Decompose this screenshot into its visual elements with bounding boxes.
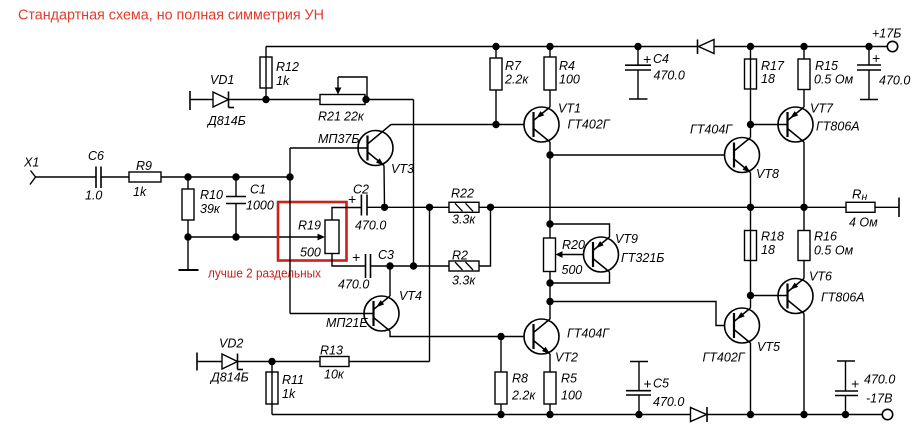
svg-text:R9: R9: [136, 159, 152, 173]
svg-text:ГТ321Б: ГТ321Б: [621, 251, 664, 265]
node C1 bottom: [232, 233, 239, 240]
svg-text:470.0: 470.0: [879, 74, 910, 88]
capacitor C1: [226, 177, 274, 237]
node R11 top: [268, 358, 275, 365]
wire riser R21 to C3 node: [413, 100, 415, 267]
svg-text:-17В: -17В: [866, 392, 892, 406]
svg-text:R19: R19: [298, 219, 321, 233]
wire VT9 emitter bracket: [550, 224, 610, 237]
svg-text:R22: R22: [451, 187, 474, 201]
wire R13 to riser: [349, 361, 430, 363]
svg-text:R7: R7: [505, 59, 522, 73]
node C4 top: [634, 43, 641, 50]
svg-text:470.0: 470.0: [654, 69, 685, 83]
svg-text:R18: R18: [761, 230, 784, 244]
wire to VT5 base: [550, 283, 734, 326]
svg-text:МП37Б: МП37Б: [318, 132, 360, 146]
svg-text:VT1: VT1: [558, 102, 581, 116]
svg-text:лучше 2 раздельных: лучше 2 раздельных: [208, 266, 321, 281]
node R20 top: [546, 220, 553, 227]
capacitor C5: [626, 362, 684, 415]
node C5 bottom: [635, 411, 642, 418]
svg-text:R10: R10: [200, 188, 223, 202]
svg-text:470.0: 470.0: [653, 395, 684, 409]
wire VT4 emitter to C3 node: [389, 266, 391, 296]
svg-text:ГТ402Г: ГТ402Г: [703, 351, 746, 365]
svg-text:3.3к: 3.3к: [452, 213, 476, 227]
terminal -17V: [882, 409, 892, 419]
diode top rail: [698, 40, 715, 55]
node C1 top: [232, 173, 239, 180]
wire top rail left: [266, 46, 698, 48]
node VT1 collector: [546, 151, 553, 158]
svg-text:1k: 1k: [133, 185, 147, 199]
node R17 top: [747, 43, 754, 50]
terminal output: [898, 198, 900, 218]
resistor R13: [320, 344, 349, 382]
node VT5 base takeoff: [546, 298, 553, 305]
wire R21 to riser: [365, 99, 414, 101]
svg-text:R13: R13: [320, 344, 343, 358]
resistor R15: [798, 47, 854, 108]
svg-text:ГТ806А: ГТ806А: [821, 291, 865, 305]
node input/base junction: [286, 173, 293, 180]
resistor R8: [495, 337, 536, 415]
svg-text:10к: 10к: [324, 368, 345, 382]
svg-text:C6: C6: [88, 149, 104, 163]
wire Rн to terminal: [875, 206, 899, 208]
svg-text:VT3: VT3: [391, 162, 414, 176]
svg-text:1k: 1k: [282, 387, 296, 401]
svg-text:R11: R11: [282, 373, 304, 387]
capacitor C2: [348, 183, 386, 233]
svg-text:0.5 Ом: 0.5 Ом: [814, 244, 854, 258]
potentiometer R21: [318, 77, 367, 124]
svg-text:C4: C4: [653, 52, 669, 66]
node R16 top / VT7 collector: [800, 204, 807, 211]
svg-text:3.3к: 3.3к: [452, 274, 476, 288]
svg-text:1.0: 1.0: [85, 189, 102, 203]
svg-text:R: R: [852, 187, 861, 202]
node R10 bottom: [184, 233, 191, 240]
svg-text:+: +: [352, 249, 360, 265]
potentiometer R20: [544, 224, 594, 283]
capacitor C6: [85, 149, 104, 203]
resistor R5: [544, 372, 582, 415]
wire bottom rail right: [707, 414, 882, 416]
node VT4 emitter: [386, 262, 393, 269]
svg-text:Стандартная схема, но полная с: Стандартная схема, но полная симметрия У…: [18, 7, 324, 24]
svg-text:МП21Е: МП21Е: [326, 316, 368, 330]
capacitor -17 rail: [835, 361, 895, 415]
node R4 top: [546, 43, 553, 50]
svg-text:4 Ом: 4 Ом: [849, 216, 878, 230]
potentiometer R19: [298, 208, 366, 267]
node R20 bottom: [546, 279, 553, 286]
wire VT4 collector to VT2 base: [390, 331, 534, 337]
node riser R13 top: [426, 204, 433, 211]
wire bottom bias node: [188, 236, 320, 238]
svg-text:+: +: [643, 51, 651, 67]
wire VT1 collector node: [550, 142, 734, 224]
svg-text:Д814Б: Д814Б: [206, 114, 246, 128]
svg-text:C3: C3: [378, 248, 394, 262]
resistor R2: [449, 249, 479, 288]
node R12 bottom: [262, 96, 269, 103]
transistor VT7: [751, 102, 860, 208]
svg-text:18: 18: [761, 72, 775, 86]
wire R2 to R22 junction: [479, 207, 491, 266]
svg-text:R5: R5: [561, 372, 577, 386]
svg-text:ГТ404Г: ГТ404Г: [690, 123, 733, 137]
transistor VT1: [524, 102, 611, 143]
zener VD1: [190, 73, 246, 128]
node R21 right: [362, 96, 369, 103]
svg-text:VD1: VD1: [210, 73, 234, 87]
svg-text:н: н: [862, 191, 868, 203]
svg-text:VT2: VT2: [555, 351, 578, 365]
wire VD2 node: [238, 361, 321, 363]
svg-text:ГТ404Г: ГТ404Г: [567, 327, 610, 341]
red highlight box: [278, 202, 347, 261]
node VT5 collector bottom: [747, 411, 754, 418]
wire X1 to C6: [36, 176, 97, 178]
transistor VT8: [690, 123, 779, 208]
node R7 top: [492, 43, 499, 50]
svg-text:R16: R16: [814, 230, 837, 244]
wire VT9 collector bracket: [550, 272, 610, 283]
ground: [179, 237, 199, 270]
node VT7 base / R17 bottom: [747, 121, 754, 128]
resistor R16: [798, 207, 854, 278]
svg-text:ГТ806А: ГТ806А: [816, 120, 860, 134]
resistor R9: [129, 159, 161, 199]
svg-text:VT9: VT9: [615, 232, 638, 246]
svg-text:+17Б: +17Б: [872, 27, 901, 41]
svg-text:C5: C5: [653, 377, 669, 391]
wire R9 to input node: [161, 176, 290, 178]
svg-text:VD2: VD2: [219, 337, 243, 351]
node VT1 base / R7: [492, 121, 499, 128]
title text: [18, 7, 324, 24]
node VT6 collector bottom: [800, 411, 807, 418]
svg-text:+: +: [643, 376, 651, 392]
svg-text:C1: C1: [250, 183, 266, 197]
wire C2 node: [367, 206, 449, 208]
node R5 bottom: [546, 411, 553, 418]
red note text: [208, 266, 321, 281]
wire riser R13 to C2 node: [429, 207, 431, 361]
node riser C3: [410, 262, 417, 269]
svg-text:0.5 Ом: 0.5 Ом: [814, 73, 854, 87]
svg-text:39к: 39к: [200, 202, 221, 216]
node R18 top: [747, 204, 754, 211]
svg-text:2.2к: 2.2к: [504, 73, 529, 87]
capacitor +17 rail: [857, 47, 910, 100]
node +17 cap: [865, 43, 872, 50]
resistor R7: [490, 47, 529, 125]
wire VD1 node: [229, 99, 321, 101]
svg-text:ГТ402Г: ГТ402Г: [568, 118, 611, 132]
svg-text:VT8: VT8: [756, 167, 779, 181]
resistor R12: [260, 47, 299, 100]
terminal +17V: [872, 27, 901, 52]
wire VT2 emitter to R5: [549, 354, 551, 372]
wire VT3 collector to VT1 base: [391, 124, 534, 126]
resistor R4: [544, 47, 580, 108]
transistor VT3: [290, 125, 414, 177]
wire top rail right: [714, 46, 888, 48]
svg-text:1k: 1k: [276, 74, 290, 88]
svg-text:Д814Б: Д814Б: [209, 371, 249, 385]
svg-text:+: +: [851, 376, 859, 392]
svg-text:2.2к: 2.2к: [511, 389, 536, 403]
resistor R22: [449, 187, 479, 227]
wire VT3 emitter to C2 node: [383, 166, 386, 208]
transistor VT9: [584, 232, 665, 272]
svg-text:R4: R4: [559, 59, 575, 73]
svg-text:R17: R17: [761, 59, 785, 73]
svg-text:470.0: 470.0: [864, 373, 895, 387]
svg-text:R21: R21: [318, 110, 341, 124]
node bottom cap: [842, 411, 849, 418]
svg-text:500: 500: [562, 263, 583, 277]
svg-text:X1: X1: [23, 156, 39, 170]
transistor VT2: [524, 319, 610, 365]
resistor Rн: [846, 187, 878, 230]
node R10 top: [184, 173, 191, 180]
svg-text:VT6: VT6: [809, 270, 832, 284]
node R8 top: [497, 333, 504, 340]
svg-text:VT4: VT4: [399, 289, 422, 303]
resistor R18: [745, 207, 784, 295]
node feedback junction: [487, 204, 494, 211]
wire C6 to R9: [101, 176, 129, 178]
svg-text:470.0: 470.0: [338, 278, 369, 292]
resistor R17: [745, 47, 785, 125]
potentiometer R19 wiper arrow: [318, 234, 326, 241]
svg-text:+: +: [872, 50, 880, 66]
diode bottom rail: [691, 407, 708, 422]
wire output rail: [479, 206, 846, 208]
wire base riser: [289, 148, 291, 314]
node VT3 emitter: [381, 204, 388, 211]
svg-text:R20: R20: [562, 238, 585, 252]
svg-text:VT5: VT5: [757, 340, 780, 354]
svg-text:500: 500: [300, 246, 321, 260]
wire bottom rail left: [272, 414, 691, 416]
resistor R10: [182, 177, 223, 237]
svg-text:R15: R15: [815, 59, 838, 73]
node R8 bottom: [497, 411, 504, 418]
svg-text:1000: 1000: [246, 199, 274, 213]
svg-text:R2: R2: [452, 249, 468, 263]
node VT6 base / R18 bottom: [747, 292, 754, 299]
transistor VT6: [751, 270, 865, 415]
svg-text:C2: C2: [353, 183, 369, 197]
capacitor C3: [338, 248, 394, 292]
connector X1: [23, 156, 39, 185]
resistor R11: [266, 362, 304, 415]
svg-text:R12: R12: [276, 60, 299, 74]
svg-text:470.0: 470.0: [355, 219, 386, 233]
svg-text:VT7: VT7: [810, 102, 834, 116]
transistor VT4: [290, 289, 422, 331]
svg-text:22к: 22к: [343, 110, 365, 124]
transistor VT5: [703, 296, 780, 415]
svg-text:18: 18: [761, 243, 775, 257]
svg-text:R8: R8: [512, 372, 528, 386]
capacitor C4: [625, 47, 685, 100]
node R15 top: [800, 43, 807, 50]
wire C3 node: [371, 265, 450, 267]
svg-text:100: 100: [559, 73, 580, 87]
svg-text:100: 100: [561, 389, 582, 403]
zener VD2: [197, 337, 249, 385]
